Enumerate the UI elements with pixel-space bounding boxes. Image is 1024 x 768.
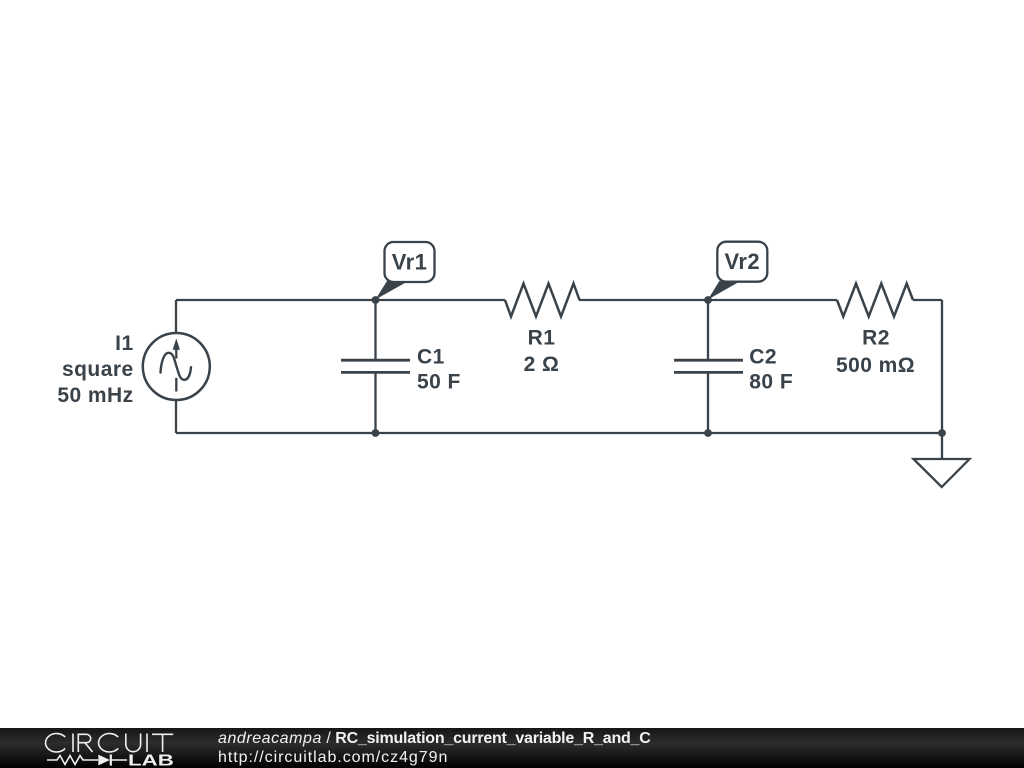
node label Vr2 box — [717, 242, 767, 282]
logo letter R — [78, 734, 92, 752]
wire top-left horizontal (node Vr1 net) — [176, 299, 505, 301]
capacitor C1 top plate — [341, 359, 410, 362]
svg-text:C1: C1 — [417, 345, 445, 368]
svg-text:square: square — [62, 358, 134, 381]
svg-text:Vr2: Vr2 — [724, 249, 760, 274]
I1 arrow head — [173, 339, 180, 350]
svg-text:I1: I1 — [115, 332, 133, 355]
junction dot bottom C1 — [372, 429, 380, 437]
logo resistor zigzag — [47, 756, 98, 765]
resistor R1 zigzag — [505, 284, 580, 317]
junction dot bottom right — [938, 429, 946, 437]
I1 sine wave — [161, 353, 192, 380]
svg-text:500 mΩ: 500 mΩ — [836, 354, 915, 377]
logo letter U — [126, 734, 141, 752]
footer url line — [218, 749, 448, 767]
svg-text:LAB: LAB — [128, 752, 174, 768]
wire bottom horizontal (ground net) — [176, 432, 942, 434]
logo letter C2 — [99, 734, 119, 753]
wire left vertical below I1 — [175, 400, 177, 433]
footer bar — [0, 728, 1024, 768]
logo diode triangle — [98, 755, 110, 766]
logo word CIRCUIT letter C — [46, 734, 66, 753]
node label Vr1 box — [385, 242, 435, 282]
wire top between R1 and node Vr2 — [579, 299, 837, 301]
logo letter I2 — [146, 734, 148, 753]
logo diode lead — [111, 759, 128, 761]
junction dot bottom C2 — [704, 429, 712, 437]
current source I1 circle — [143, 333, 210, 400]
capacitor C1 top lead — [374, 300, 376, 360]
Vr2 label pointer — [708, 281, 741, 300]
footer title line — [218, 730, 651, 748]
wire right vertical (R2 to bottom) — [941, 300, 943, 433]
capacitor C1 bottom plate — [341, 371, 410, 374]
wire top between R2 and right corner — [913, 299, 942, 301]
wire left vertical above I1 — [175, 300, 177, 333]
capacitor C2 bottom plate — [674, 371, 743, 374]
logo letter I — [72, 734, 74, 753]
svg-text:Vr1: Vr1 — [392, 250, 428, 275]
logo letter T — [152, 734, 173, 752]
svg-text:80 F: 80 F — [749, 370, 793, 393]
capacitor C2 top plate — [674, 359, 743, 362]
svg-text:50 mHz: 50 mHz — [57, 384, 133, 407]
node Vr1 junction dot — [372, 296, 380, 304]
node Vr2 junction dot — [704, 296, 712, 304]
Vr1 label pointer — [376, 281, 409, 300]
resistor R2 zigzag — [837, 284, 913, 317]
svg-text:R2: R2 — [862, 326, 890, 349]
wire to ground symbol — [941, 433, 943, 459]
svg-text:C2: C2 — [749, 345, 777, 368]
svg-text:50 F: 50 F — [417, 370, 461, 393]
svg-text:R1: R1 — [528, 327, 556, 350]
I1 arrow shaft lower — [175, 378, 177, 392]
svg-text:2 Ω: 2 Ω — [524, 353, 560, 376]
I1 arrow shaft upper — [175, 349, 177, 359]
capacitor C2 bottom lead — [707, 372, 709, 433]
capacitor C1 bottom lead — [374, 372, 376, 433]
capacitor C2 top lead — [707, 300, 709, 360]
ground symbol — [914, 459, 970, 487]
logo diode cathode bar — [110, 754, 112, 765]
